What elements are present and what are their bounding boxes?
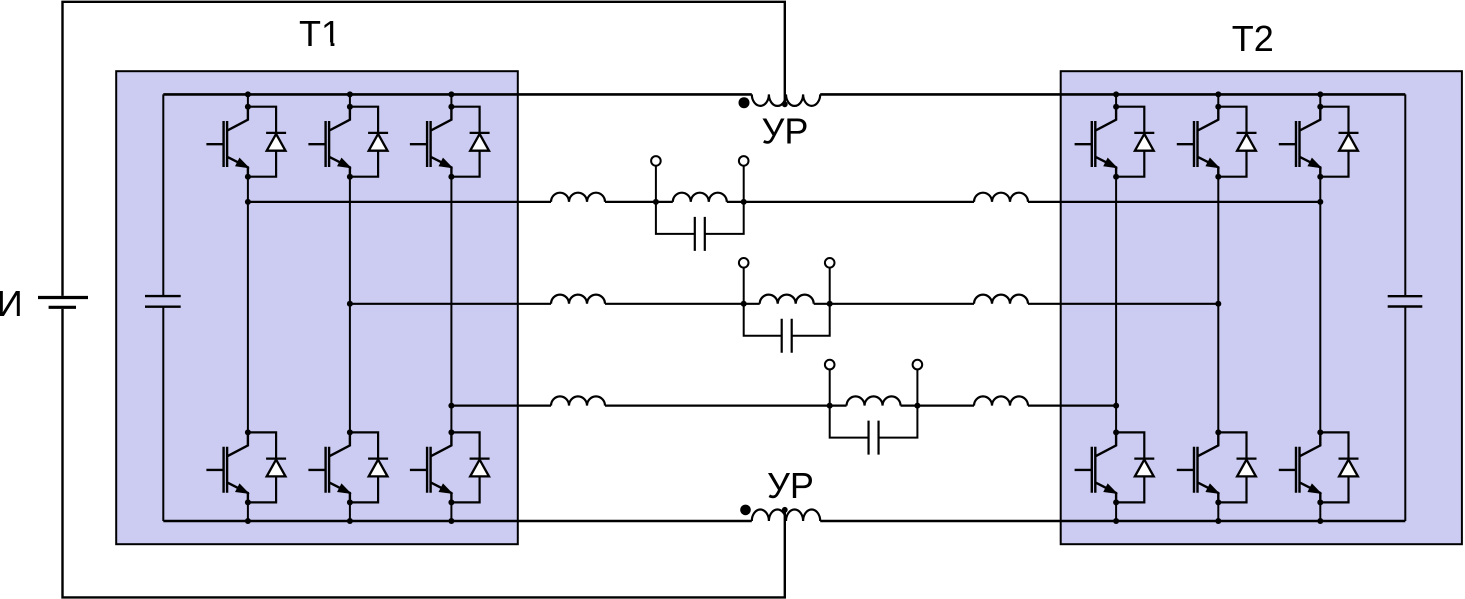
junction: T1 column 3 bottom rail	[448, 518, 454, 524]
junction: T1 column 3 phase tap	[448, 403, 454, 409]
svg-text:T1: T1	[299, 13, 341, 54]
inductor L1c (phase 1 right)	[974, 193, 1028, 202]
wire: bottom DC rail T1 to UR	[163, 520, 752, 523]
junction: T2 column 2 phase tap	[1215, 301, 1221, 307]
wire: T1 column 2 midpoint	[349, 177, 351, 433]
wire: top DC rail UR to T2	[820, 93, 1405, 96]
converter block T2	[1061, 71, 1462, 544]
junction: phase 3 filter node B	[914, 403, 920, 409]
terminal circle left (phase 3)	[825, 360, 835, 370]
transistor IGBT T2 column 1 upper (with diode)	[1075, 104, 1155, 180]
wire: T1 column 1 to bottom rail	[247, 502, 249, 521]
wire: T1 column 3 rail drop	[450, 94, 452, 106]
wire: T2 column 1 midpoint	[1115, 177, 1117, 433]
wire: phase 3 to right inductor	[917, 405, 974, 407]
junction: UR bottom center tap	[782, 507, 788, 513]
junction: phase 1 filter node B	[741, 199, 747, 205]
junction: phase 3 filter node A	[827, 403, 833, 409]
wire: phase 2 to filter	[605, 303, 744, 305]
terminal circle left (phase 2)	[739, 258, 749, 268]
wire: outer loop bottom (source to UR bottom center tap)	[63, 309, 785, 598]
junction: T2 column 1 top rail	[1113, 91, 1119, 97]
transistor IGBT T1 column 3 upper (with diode)	[410, 104, 490, 180]
transistor IGBT T2 column 2 upper (with diode)	[1177, 104, 1257, 180]
terminal stub right (phase 1)	[743, 166, 745, 202]
junction: T2 column 3 bottom rail	[1317, 518, 1323, 524]
wire: phase 1 from T1 column	[248, 201, 551, 203]
wire: T1 column 1 rail drop	[247, 94, 249, 106]
polarity dot (UR top)	[739, 97, 750, 108]
terminal stub right (phase 3)	[916, 369, 918, 405]
junction: T1 column 2 phase tap	[347, 301, 353, 307]
inductor L2c (phase 2 right)	[974, 295, 1028, 304]
wire: T2 column 1 rail drop	[1115, 94, 1117, 106]
wire: T2 DC bus right leg	[1404, 94, 1406, 521]
wire: bottom DC rail UR to T2	[820, 520, 1405, 523]
wire: top DC rail T1 to UR	[163, 93, 752, 96]
wire: T1 column 2 rail drop	[349, 94, 351, 106]
wire: phase 1 into T2	[1028, 201, 1320, 203]
capacitor (T1 DC link)	[145, 296, 181, 307]
svg-text:УР: УР	[767, 465, 814, 506]
wire: T1 column 3 to bottom rail	[450, 502, 452, 521]
junction: T2 column 2 bottom rail	[1215, 518, 1221, 524]
wire: T2 column 3 to bottom rail	[1319, 502, 1321, 521]
polarity dot (UR bottom)	[740, 505, 751, 516]
wire: outer loop top (source to UR top center tap)	[63, 2, 785, 296]
wire: phase 3 into T2	[1028, 405, 1116, 407]
wire: phase 1 to right inductor	[744, 201, 974, 203]
wire: T2 column 2 rail drop	[1217, 94, 1219, 106]
wire: T2 column 2 midpoint	[1217, 177, 1219, 433]
wire: T1 column 3 midpoint	[450, 177, 452, 433]
wire: T2 column 2 to bottom rail	[1217, 502, 1219, 521]
junction: T1 column 3 top rail	[448, 91, 454, 97]
transistor IGBT T1 column 1 lower (with diode)	[206, 429, 286, 505]
coupled reactor UR top (windings)	[752, 94, 820, 106]
junction: T1 column 1 bottom rail	[245, 518, 251, 524]
inductor L2a (phase 2 left)	[551, 295, 605, 304]
capacitor C3 (phase 3 filter) branch	[830, 406, 918, 438]
junction: phase 2 filter node A	[741, 301, 747, 307]
terminal stub right (phase 2)	[829, 268, 831, 304]
svg-text:И: И	[0, 283, 23, 324]
inductor L2b (phase 2 filter)	[744, 303, 760, 305]
wire: phase 3 to filter	[605, 405, 830, 407]
wire: phase 2 to right inductor	[830, 303, 974, 305]
terminal stub left (phase 3)	[829, 369, 831, 405]
transistor IGBT T2 column 3 upper (with diode)	[1279, 104, 1359, 180]
inductor L1b (phase 1 filter)	[656, 201, 673, 203]
transistor IGBT T1 column 3 lower (with diode)	[410, 429, 490, 505]
junction: T1 column 2 bottom rail	[347, 518, 353, 524]
junction: T2 column 3 top rail	[1317, 91, 1323, 97]
coupled reactor UR bottom (windings)	[752, 510, 820, 522]
junction: T1 column 1 phase tap	[245, 199, 251, 205]
wire: phase 2 from T1 column	[350, 303, 551, 305]
wire: T1 column 1 midpoint	[247, 177, 249, 433]
wire: phase 2 into T2	[1028, 303, 1218, 305]
capacitor C1 (phase 1 filter) branch	[656, 202, 744, 234]
junction: T2 column 1 phase tap	[1113, 403, 1119, 409]
battery (source И plates)	[38, 296, 88, 299]
terminal circle right (phase 1)	[739, 156, 749, 166]
junction: T2 column 2 top rail	[1215, 91, 1221, 97]
transistor IGBT T2 column 1 lower (with diode)	[1075, 429, 1155, 505]
wire: T1 column 2 to bottom rail	[349, 502, 351, 521]
junction: T1 column 1 top rail	[245, 91, 251, 97]
transistor IGBT T1 column 2 upper (with diode)	[308, 104, 388, 180]
junction: T2 column 1 bottom rail	[1113, 518, 1119, 524]
inductor L3b (phase 3 filter)	[830, 405, 847, 407]
wire: T2 column 1 to bottom rail	[1115, 502, 1117, 521]
wire: T1 DC bus left leg	[162, 94, 164, 521]
svg-text:УР: УР	[762, 111, 809, 152]
inductor L3c (phase 3 right)	[974, 396, 1028, 405]
wire: phase 1 to filter	[605, 201, 656, 203]
converter block T1	[116, 71, 518, 544]
capacitor C2 (phase 2 filter) branch	[744, 304, 830, 336]
wire: T2 column 3 midpoint	[1319, 177, 1321, 433]
transistor IGBT T1 column 1 upper (with diode)	[206, 104, 286, 180]
svg-text:T2: T2	[1232, 18, 1274, 59]
wire: phase 3 from T1 column	[451, 405, 551, 407]
terminal circle left (phase 1)	[651, 156, 661, 166]
junction: phase 2 filter node B	[827, 301, 833, 307]
transistor IGBT T1 column 2 lower (with diode)	[308, 429, 388, 505]
terminal stub left (phase 1)	[655, 166, 657, 202]
transistor IGBT T2 column 3 lower (with diode)	[1279, 429, 1359, 505]
transistor IGBT T2 column 2 lower (with diode)	[1177, 429, 1257, 505]
wire: T2 column 3 rail drop	[1319, 94, 1321, 106]
junction: UR top center tap	[782, 101, 788, 107]
terminal circle right (phase 2)	[825, 258, 835, 268]
terminal stub left (phase 2)	[743, 268, 745, 304]
capacitor (T2 DC link)	[1388, 296, 1423, 306]
inductor L3a (phase 3 left)	[551, 396, 605, 405]
junction: T1 column 2 top rail	[347, 91, 353, 97]
junction: phase 1 filter node A	[653, 199, 659, 205]
junction: T2 column 3 phase tap	[1317, 199, 1323, 205]
inductor L1a (phase 1 left)	[551, 193, 605, 202]
terminal circle right (phase 3)	[913, 360, 923, 370]
